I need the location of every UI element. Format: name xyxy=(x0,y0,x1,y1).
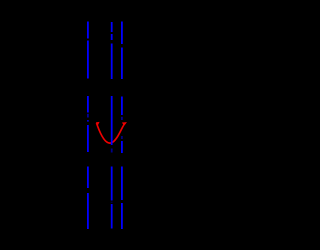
L1 dim dash 5 xyxy=(87,120,89,122)
L2 dash 8 xyxy=(111,204,113,229)
L1 dash 1 xyxy=(87,22,89,39)
L1 dim dash 4 xyxy=(87,114,89,118)
exchange arrow curve xyxy=(97,123,126,143)
L3 dash 1 xyxy=(121,22,123,45)
L1 dash 7 xyxy=(87,167,89,189)
L2 dash 3 xyxy=(111,44,113,80)
L3 dash 8 xyxy=(121,203,123,229)
L3 dim dash 5 xyxy=(121,136,123,139)
L3 dash 2 xyxy=(121,48,123,80)
L3 dash 3 xyxy=(121,97,123,116)
L3 dim dash 4 xyxy=(121,117,123,120)
exchange arrow left head xyxy=(96,122,100,126)
L1 dash 8 xyxy=(87,193,89,229)
worldline L1 (left dashed blue line, x=87.9) xyxy=(87,22,89,230)
L1 dash 3 xyxy=(87,96,89,113)
worldline L2 (middle dashed blue line, x=111.7) xyxy=(111,22,113,229)
L2 dim dash 5 xyxy=(111,149,113,153)
L1 dash 6 xyxy=(87,125,89,152)
worldline L3 (right dashed blue line, x=121.9) xyxy=(121,22,123,230)
L2 dash 1 xyxy=(111,22,113,32)
L3 dash 7 xyxy=(121,167,123,201)
exchange arrow (red curved double-headed arrow) xyxy=(96,122,127,143)
L2 dash 6 xyxy=(111,167,113,201)
L1 dash 2 xyxy=(87,41,89,79)
L2 dim dash 7 xyxy=(111,202,113,203)
L2 dash 4 xyxy=(111,96,113,145)
L3 dash 6 xyxy=(121,141,123,153)
exchange arrow right head xyxy=(122,122,127,126)
L2 dash 2 xyxy=(111,34,113,40)
